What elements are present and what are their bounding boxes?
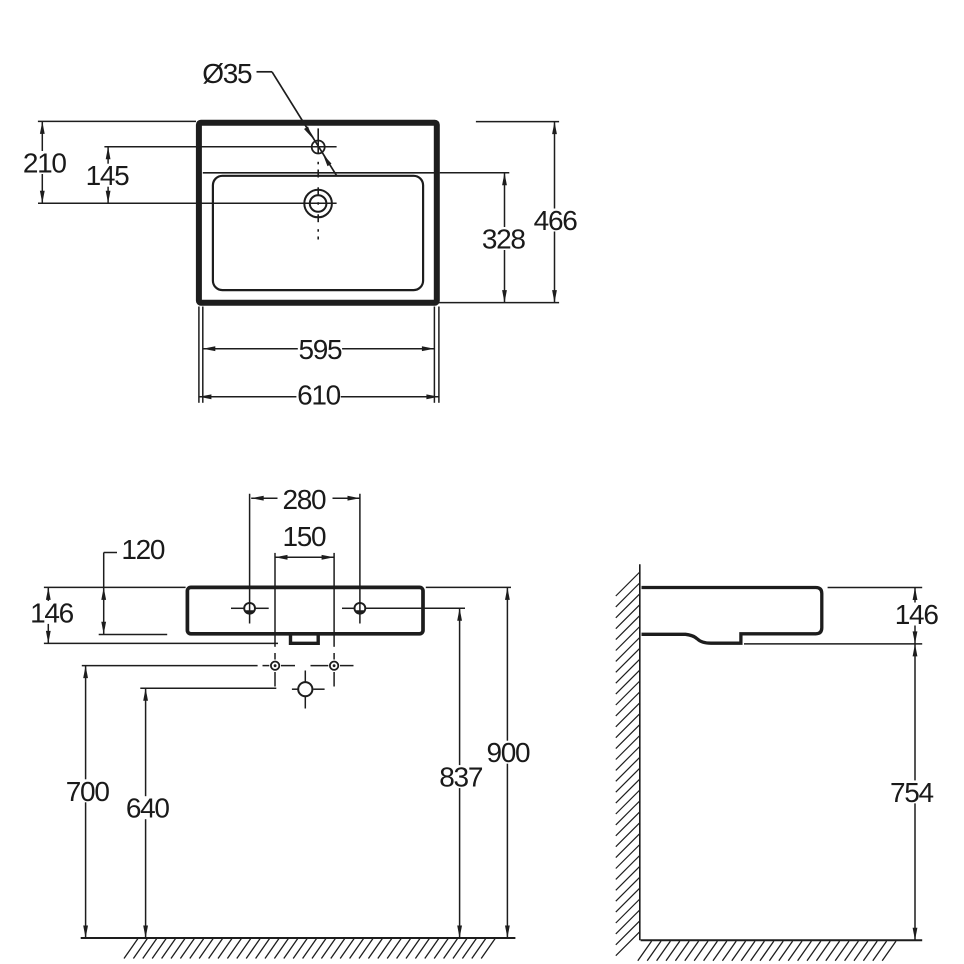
svg-text:837: 837 bbox=[439, 762, 483, 793]
front view: basin body bbox=[187, 587, 423, 633]
front view: drain circle bbox=[292, 671, 325, 709]
ground line (side view) bbox=[638, 940, 922, 961]
leader line for diameter 35 faucet hole bbox=[257, 72, 337, 176]
dimension 146 (front left) bbox=[29, 587, 278, 643]
plan view: washbasin outer rim bbox=[199, 123, 437, 303]
dimension 120 (front left) bbox=[99, 534, 168, 634]
svg-text:150: 150 bbox=[282, 521, 326, 552]
plan view: vertical dash-dot centerline bbox=[317, 128, 319, 239]
svg-text:466: 466 bbox=[534, 205, 578, 236]
plan view: basin rounded rectangle bbox=[213, 176, 423, 290]
front view: left wall-bolt bbox=[263, 662, 296, 670]
front view: right wall-bolt bbox=[311, 662, 354, 670]
dimension 328 (right, plan) bbox=[440, 173, 526, 303]
side view: wall hatching bbox=[616, 572, 640, 956]
front view: right fixing hole bbox=[342, 603, 365, 614]
side view: basin body profile bbox=[642, 588, 822, 644]
plan view: drain crosshair horizontal / 210 extension line bbox=[38, 202, 337, 204]
plan view: faucet hole circle bbox=[312, 141, 325, 154]
extension verticals for 150 through body to bolts bbox=[275, 553, 334, 687]
dimension 837 bbox=[439, 608, 483, 938]
svg-text:120: 120 bbox=[121, 534, 165, 565]
dimension 280 (front) bbox=[251, 484, 360, 515]
front view: drain trap tab bbox=[291, 633, 319, 643]
ground line (front view) bbox=[81, 938, 516, 959]
dimension 595 (bottom, plan) bbox=[203, 334, 435, 365]
svg-text:146: 146 bbox=[895, 599, 939, 630]
svg-text:610: 610 bbox=[297, 380, 341, 411]
body-top level extension lines (front) bbox=[44, 586, 511, 588]
front view: left fixing hole bbox=[231, 603, 269, 614]
dimension 900 bbox=[486, 587, 530, 938]
svg-text:210: 210 bbox=[23, 148, 67, 179]
dimension 610 (bottom, plan) bbox=[199, 380, 439, 411]
side view: wall line bbox=[639, 564, 641, 940]
plan view: deck line bbox=[203, 172, 434, 174]
svg-text:280: 280 bbox=[282, 484, 326, 515]
dimension 754 (side) bbox=[889, 644, 933, 940]
fixing-hole-level extension line (837 top) bbox=[366, 607, 465, 609]
svg-text:595: 595 bbox=[298, 334, 342, 365]
svg-text:Ø35: Ø35 bbox=[202, 58, 252, 89]
svg-text:640: 640 bbox=[126, 793, 170, 824]
dimension 210 (left, plan) bbox=[22, 121, 196, 203]
svg-text:328: 328 bbox=[482, 224, 526, 255]
side body-bottom extension line bbox=[744, 643, 922, 645]
dimension 466 (right, plan) bbox=[437, 122, 577, 303]
svg-text:145: 145 bbox=[86, 160, 130, 191]
svg-text:700: 700 bbox=[66, 776, 110, 807]
dimension 146 (side) bbox=[894, 588, 938, 644]
label diameter 35 bbox=[202, 58, 252, 89]
extension verticals through fixing holes (280) bbox=[250, 494, 360, 624]
plan view: drain inner circle bbox=[310, 195, 327, 212]
extension lines below plan rim bbox=[199, 307, 439, 403]
svg-text:754: 754 bbox=[890, 777, 934, 808]
plan view: faucet hole crosshair horizontal / 145 extension line bbox=[104, 146, 336, 148]
side body-top extension line bbox=[828, 587, 923, 589]
svg-text:146: 146 bbox=[30, 597, 74, 628]
svg-text:900: 900 bbox=[486, 737, 530, 768]
dimension 700 bbox=[65, 666, 109, 938]
dimension 150 (front) bbox=[275, 521, 334, 560]
plan view: drain outer circle bbox=[304, 190, 332, 218]
dimension 640 bbox=[125, 688, 169, 938]
dimension 145 (left, plan) bbox=[85, 147, 129, 204]
drain-level extension line (640 top) bbox=[140, 687, 276, 689]
bolt-level extension line (700 top) bbox=[82, 665, 258, 667]
